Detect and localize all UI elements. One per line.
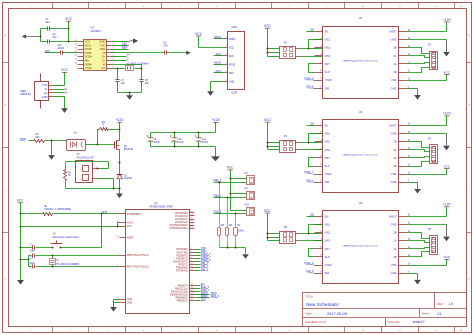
ground xyxy=(242,254,249,259)
net label MISO / END_Z xyxy=(201,294,220,298)
net label SCK xyxy=(201,297,207,301)
svg-text:1/1: 1/1 xyxy=(437,312,442,316)
svg-text:GND: GND xyxy=(391,132,397,136)
wire xyxy=(66,162,109,170)
svg-text:EN: EN xyxy=(325,214,329,218)
svg-text:DCD#: DCD# xyxy=(85,55,93,59)
svg-text:MS3: MS3 xyxy=(325,239,331,243)
svg-text:+12V: +12V xyxy=(443,203,452,207)
svg-text:VMOT: VMOT xyxy=(389,30,397,34)
connector P4 (2x2 header) xyxy=(280,141,300,153)
label C1 22pF xyxy=(30,244,36,252)
crystal X1 xyxy=(126,66,134,71)
svg-text:VCC: VCC xyxy=(61,68,69,72)
wire xyxy=(119,130,121,141)
svg-text:1N4004: 1N4004 xyxy=(124,178,133,180)
net port (left arrow) xyxy=(22,34,41,38)
svg-text:VMOT: VMOT xyxy=(389,214,397,218)
connector P7 (power jack) xyxy=(76,161,98,183)
wire xyxy=(21,223,120,228)
svg-text:Date:: Date: xyxy=(306,312,313,316)
wire xyxy=(195,258,201,260)
power flag VCC (P2) xyxy=(264,24,272,57)
pin numbers U2 xyxy=(321,30,411,89)
pin numbers U3 xyxy=(74,40,114,69)
net label MISO xyxy=(214,35,223,39)
power flag VCC (U4 VDD) xyxy=(407,164,451,174)
svg-text:300: 300 xyxy=(35,136,40,139)
connector P6 (2x2 header) xyxy=(280,232,300,244)
svg-text:AREF: AREF xyxy=(127,236,134,239)
svg-text:2B: 2B xyxy=(393,231,396,235)
svg-text:VCC: VCC xyxy=(42,83,48,87)
IC U4 A4988 stepper driver xyxy=(315,120,407,193)
wire xyxy=(231,178,247,180)
svg-text:VMOT: VMOT xyxy=(389,123,397,127)
wire xyxy=(114,300,120,306)
svg-text:END_Z: END_Z xyxy=(211,294,220,298)
wire xyxy=(407,48,430,54)
svg-text:RI#: RI# xyxy=(85,59,90,63)
svg-text:Drawn By:: Drawn By: xyxy=(388,320,401,324)
title block xyxy=(303,293,467,327)
svg-text:22p: 22p xyxy=(145,82,150,85)
label C12 100nF xyxy=(57,44,65,50)
net label END_Z xyxy=(213,211,221,214)
wire xyxy=(54,89,65,91)
svg-text:STEP: STEP xyxy=(325,263,332,267)
label P7 AU126V-5.0-2P xyxy=(77,153,94,159)
wire xyxy=(66,188,120,190)
svg-text:U3: U3 xyxy=(91,25,95,29)
capacitor C5 xyxy=(165,51,167,55)
wire xyxy=(214,197,247,199)
svg-text:VDD: VDD xyxy=(391,78,397,82)
svg-text:100nF: 100nF xyxy=(57,47,65,50)
label C4 104 xyxy=(45,17,50,24)
capacitor C7 xyxy=(116,69,120,93)
svg-text:EasyEDA V4.4.4: EasyEDA V4.4.4 xyxy=(306,320,327,324)
svg-text:MOSI: MOSI xyxy=(214,61,221,65)
pin numbers U5 xyxy=(321,215,411,274)
diode D1 xyxy=(117,174,123,179)
svg-text:PC5(ADC5/SCL): PC5(ADC5/SCL) xyxy=(170,227,188,230)
svg-text:MS3: MS3 xyxy=(325,148,331,152)
label P6 xyxy=(284,226,288,229)
svg-text:PB5(SCK): PB5(SCK) xyxy=(177,300,188,303)
wire xyxy=(54,92,65,94)
wire xyxy=(45,52,78,54)
svg-text:2A: 2A xyxy=(393,239,396,243)
label USB1 USB B 90 xyxy=(20,90,32,96)
ground xyxy=(116,189,123,199)
svg-text:CTS#: CTS# xyxy=(85,66,92,70)
wire xyxy=(231,210,247,212)
wire xyxy=(231,193,247,195)
resistor R1 xyxy=(43,213,53,216)
svg-text:SCK: SCK xyxy=(201,297,207,301)
ground xyxy=(443,40,450,57)
svg-text:104: 104 xyxy=(163,44,168,47)
ground xyxy=(414,279,421,284)
wire xyxy=(113,65,143,70)
net label END_Y xyxy=(213,194,221,197)
wire xyxy=(20,214,22,228)
net label RXD xyxy=(122,46,127,49)
capacitor C4 xyxy=(47,26,49,31)
svg-text:IRFZ44N: IRFZ44N xyxy=(124,149,134,151)
wire xyxy=(407,162,430,167)
crystal Y1 xyxy=(50,256,56,267)
svg-text:+12V: +12V xyxy=(443,112,452,116)
svg-text:GND: GND xyxy=(391,271,397,275)
wire xyxy=(29,255,120,257)
IC U1 ATMEGA328P xyxy=(120,210,195,314)
svg-text:P10: P10 xyxy=(245,204,250,207)
svg-text:10KOhm 1_2W5%(SMD): 10KOhm 1_2W5%(SMD) xyxy=(44,208,71,211)
connector P5 (motor output) xyxy=(430,236,438,255)
label P3 xyxy=(428,137,432,140)
svg-text:470uF: 470uF xyxy=(153,141,160,144)
svg-text:22p: 22p xyxy=(121,82,126,85)
net label DIR_Z xyxy=(201,267,209,271)
wire xyxy=(195,255,201,257)
wire xyxy=(407,39,447,41)
svg-text:XI: XI xyxy=(103,62,106,66)
net label D- xyxy=(65,89,68,91)
ground xyxy=(61,108,68,113)
svg-text:VCC: VCC xyxy=(65,17,73,21)
ground xyxy=(443,134,450,151)
svg-text:VCC: VCC xyxy=(227,166,234,170)
svg-text:22pF: 22pF xyxy=(30,251,36,253)
svg-text:RXD: RXD xyxy=(100,47,106,51)
svg-text:RTS#: RTS# xyxy=(85,47,92,51)
svg-text:SLP: SLP xyxy=(325,255,330,259)
ground xyxy=(126,93,133,100)
svg-text:RST: RST xyxy=(229,72,234,75)
label C5 104 xyxy=(163,41,168,47)
net port (right arrow) xyxy=(186,51,190,55)
svg-text:VCC: VCC xyxy=(264,24,272,28)
svg-text:PB7(XTAL2/TOSC2): PB7(XTAL2/TOSC2) xyxy=(127,266,149,269)
net label D+ xyxy=(127,54,131,57)
IC U2 A4988 stepper driver xyxy=(315,27,407,99)
svg-text:470uF: 470uF xyxy=(177,141,184,144)
svg-text:104: 104 xyxy=(45,20,50,24)
svg-text:EN: EN xyxy=(325,123,329,127)
ground xyxy=(211,156,220,161)
wire xyxy=(54,97,65,109)
wire xyxy=(21,256,30,267)
capacitor C12 xyxy=(61,51,63,55)
wire xyxy=(407,224,447,226)
capacitor C8 xyxy=(140,69,144,93)
label P10 xyxy=(245,204,250,207)
net label EN (Z) xyxy=(307,213,315,216)
wire xyxy=(309,249,315,257)
svg-text:CON: CON xyxy=(232,26,238,29)
wire xyxy=(211,82,223,91)
power flag +12V (cap bank) xyxy=(212,118,221,132)
svg-text:A4988 Stepper Motor Driver Car: A4988 Stepper Motor Driver Carrier xyxy=(343,153,378,156)
wire xyxy=(113,52,187,54)
svg-text:AU126V-5.0-2P: AU126V-5.0-2P xyxy=(77,156,94,159)
label U5 xyxy=(359,201,363,205)
wire xyxy=(407,252,430,257)
svg-text:VDD: VDD xyxy=(391,263,397,267)
svg-text:Sheet:: Sheet: xyxy=(422,312,431,316)
label C6 10u xyxy=(52,32,57,39)
svg-text:MOSI: MOSI xyxy=(229,63,236,66)
capacitor C2a xyxy=(33,254,35,258)
label R3 300 xyxy=(35,133,40,139)
label R5 xyxy=(221,225,225,227)
power flag +12V (U5) xyxy=(407,203,452,217)
wire xyxy=(119,151,121,175)
net label DIR_Z xyxy=(306,270,314,273)
label R4 7k xyxy=(102,121,106,127)
svg-text:VCC: VCC xyxy=(264,118,272,122)
wire xyxy=(20,248,22,280)
svg-text:+12V: +12V xyxy=(116,118,125,122)
svg-text:1A: 1A xyxy=(393,156,396,160)
connector P1 (motor output) xyxy=(430,52,438,70)
wire xyxy=(113,41,128,43)
wire xyxy=(54,85,65,87)
svg-text:VCC: VCC xyxy=(127,225,132,228)
wire xyxy=(214,213,247,215)
capacitor C6 xyxy=(47,39,49,44)
net label SCK xyxy=(214,52,223,56)
wire xyxy=(407,68,430,73)
wire xyxy=(407,142,430,148)
svg-text:1B: 1B xyxy=(393,164,396,168)
svg-text:MS2: MS2 xyxy=(325,231,331,235)
net label STEP_X xyxy=(304,77,314,80)
svg-text:SLP: SLP xyxy=(325,164,330,168)
svg-text:New Schematic: New Schematic xyxy=(306,302,339,307)
svg-text:SCK: SCK xyxy=(229,55,234,58)
wire xyxy=(220,247,246,254)
wire xyxy=(195,267,201,269)
net label D+ xyxy=(65,93,69,95)
svg-text:VCC: VCC xyxy=(17,199,24,203)
net label EN xyxy=(201,282,205,286)
svg-text:2A: 2A xyxy=(393,54,396,58)
wire xyxy=(21,247,53,249)
label C2 22pF xyxy=(30,257,36,264)
svg-text:2017-05-05: 2017-05-05 xyxy=(327,312,347,316)
svg-text:GND: GND xyxy=(391,38,397,42)
label Y1 HC-49US 16.000MHz xyxy=(56,259,80,266)
svg-text:10KΩ: 10KΩ xyxy=(238,230,244,232)
ground xyxy=(48,155,55,160)
svg-text:D-: D- xyxy=(127,58,130,61)
svg-text:470uF: 470uF xyxy=(202,141,209,144)
capacitor C10 xyxy=(170,133,177,147)
net label DIR_X xyxy=(306,85,314,88)
wire xyxy=(195,252,201,254)
ground xyxy=(443,224,450,241)
svg-text:VCC: VCC xyxy=(195,32,203,36)
svg-text:1A: 1A xyxy=(393,247,396,251)
svg-text:GND: GND xyxy=(391,222,397,226)
wire xyxy=(86,130,100,146)
connector P9 xyxy=(247,192,255,200)
label P8 xyxy=(245,172,249,175)
power flag VCC (P6) xyxy=(264,209,272,241)
svg-text:VCC: VCC xyxy=(444,70,451,74)
connector P8 xyxy=(247,176,255,185)
capacitor C1 xyxy=(33,246,35,250)
svg-text:USB B 90: USB B 90 xyxy=(20,93,32,96)
svg-text:DIR: DIR xyxy=(325,271,330,275)
connector CON (ICSP) xyxy=(223,32,245,90)
wire xyxy=(407,150,430,152)
label R6 xyxy=(229,225,233,227)
wire xyxy=(29,140,35,142)
svg-text:A4988 Stepper Motor Driver Car: A4988 Stepper Motor Driver Carrier xyxy=(343,244,378,247)
svg-text:ICSP: ICSP xyxy=(231,92,237,95)
label S1 Momentary Switch Open xyxy=(53,233,80,239)
svg-text:GND: GND xyxy=(42,95,48,99)
net label EN (Y) xyxy=(307,123,315,126)
svg-text:DTR#: DTR# xyxy=(85,51,92,55)
wire xyxy=(195,264,201,266)
wire xyxy=(61,214,102,248)
switch S1 xyxy=(51,241,63,249)
ground xyxy=(110,306,117,312)
net label RST xyxy=(102,211,107,214)
wire xyxy=(53,213,120,215)
label C7 22p xyxy=(121,79,126,85)
svg-text:SLP: SLP xyxy=(325,70,330,74)
label D1 1N4004 xyxy=(124,175,133,180)
svg-text:2B: 2B xyxy=(393,140,396,144)
wire xyxy=(113,45,129,47)
wire xyxy=(20,227,22,249)
label P2 xyxy=(284,41,288,44)
wire xyxy=(113,60,127,62)
net label RST xyxy=(214,69,223,73)
wire xyxy=(109,129,121,131)
connector P10 xyxy=(247,208,255,216)
svg-text:GND: GND xyxy=(229,80,235,83)
power flag +12V (U2) xyxy=(407,18,452,32)
wire xyxy=(407,63,430,64)
label R7 10KOhm xyxy=(237,225,244,233)
net label STEP_Z xyxy=(304,262,314,265)
svg-text:MS1: MS1 xyxy=(325,222,331,226)
net port (right arrow) xyxy=(128,38,139,43)
wire xyxy=(214,182,247,184)
wire xyxy=(407,233,430,239)
net label SPIN xyxy=(20,138,26,141)
svg-text:1A: 1A xyxy=(393,62,396,66)
svg-text:D+: D+ xyxy=(44,91,48,95)
resistor R7 xyxy=(234,214,238,248)
svg-text:D-: D- xyxy=(65,89,68,91)
wire xyxy=(98,179,115,190)
wire xyxy=(309,158,315,167)
label P5 xyxy=(428,228,432,231)
wire xyxy=(151,146,216,157)
svg-text:1.0: 1.0 xyxy=(449,302,454,306)
label C10 470uF xyxy=(177,138,184,144)
capacitor C9 xyxy=(146,133,153,147)
wire xyxy=(267,233,280,241)
svg-text:DIR: DIR xyxy=(325,180,330,184)
label Q2 IRFZ44N xyxy=(124,146,134,151)
net label STEP_X xyxy=(201,252,211,256)
power flag VCC (USB) xyxy=(61,68,69,85)
svg-text:PB6(XTAL1/TOSC1): PB6(XTAL1/TOSC1) xyxy=(127,254,149,257)
svg-text:U4: U4 xyxy=(359,110,363,114)
wire xyxy=(29,266,120,268)
svg-text:VCC: VCC xyxy=(229,46,234,49)
wire xyxy=(407,183,418,189)
power flag +12V (spindle) xyxy=(116,118,125,130)
label P1 xyxy=(428,43,432,46)
svg-text:D-: D- xyxy=(103,59,106,63)
label C8 22p xyxy=(145,79,150,85)
label U3 CH340G xyxy=(91,25,101,32)
svg-text:RST: RST xyxy=(325,156,331,160)
svg-text:D+: D+ xyxy=(102,55,106,59)
wire xyxy=(195,249,201,251)
ground xyxy=(414,95,421,100)
svg-text:EN: EN xyxy=(325,30,329,34)
wire xyxy=(407,157,430,158)
svg-text:2A: 2A xyxy=(393,148,396,152)
pin numbers CON xyxy=(225,37,227,82)
label R2 7k xyxy=(68,171,72,177)
net label END_Y xyxy=(201,288,210,292)
power flag VCC (CH340 supply) xyxy=(65,17,73,29)
capacitor C11 xyxy=(195,133,202,147)
wire xyxy=(119,179,121,190)
wire xyxy=(113,49,129,51)
wire xyxy=(195,300,201,302)
wire xyxy=(267,48,280,57)
power flag VCC (MCU) xyxy=(17,199,24,214)
wire xyxy=(195,291,201,293)
svg-text:VCC: VCC xyxy=(264,209,272,213)
label U6 xyxy=(74,131,78,134)
label R1 10KOhm xyxy=(44,205,71,211)
svg-text:D-: D- xyxy=(45,87,48,91)
svg-text:TXD: TXD xyxy=(100,43,105,47)
svg-text:MS2: MS2 xyxy=(325,46,331,50)
label X1 HC-49US 12.000MHz xyxy=(127,63,150,65)
label U2 xyxy=(359,16,363,20)
wire xyxy=(407,248,430,249)
svg-text:DIR: DIR xyxy=(325,86,330,90)
ground xyxy=(414,188,421,193)
svg-text:MS3: MS3 xyxy=(325,54,331,58)
IC U5 A4988 stepper driver xyxy=(315,211,407,284)
wire xyxy=(118,92,142,94)
svg-text:VDD: VDD xyxy=(391,172,397,176)
resistor R5 xyxy=(218,183,221,248)
power flag VCC (U5 VDD) xyxy=(407,255,451,265)
wire xyxy=(40,28,78,43)
net label D- xyxy=(127,58,130,61)
connector P2 (2x2 header) xyxy=(280,47,300,59)
svg-text:GND: GND xyxy=(99,40,105,44)
svg-text:HC-49US 16.000MHz: HC-49US 16.000MHz xyxy=(56,263,80,266)
